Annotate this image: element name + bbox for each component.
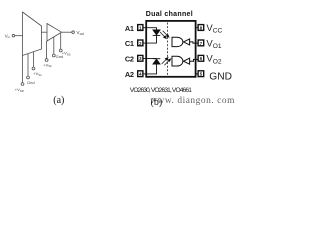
wire Vin to buffer (15, 35, 23, 37)
wire +VSS drop (60, 33, 62, 49)
svg-text:+VSS: +VSS (62, 51, 71, 57)
wire U1b to Vout (62, 31, 72, 33)
svg-text:VCC: VCC (206, 23, 222, 35)
svg-text:Vout: Vout (77, 30, 85, 36)
svg-text:7: 7 (200, 41, 203, 46)
wire +VS2 drop (46, 41, 48, 59)
svg-text:4: 4 (139, 72, 142, 77)
wire +VDD drop (22, 56, 24, 83)
svg-text:A1: A1 (125, 24, 134, 33)
light arrows channel 2 (162, 59, 167, 64)
LED D2 (channel 2) (153, 58, 161, 60)
svg-text:1: 1 (139, 25, 142, 30)
wire gate2 to pin6 (190, 59, 198, 61)
node Vout terminal (72, 31, 75, 34)
pin 6 box (198, 55, 204, 61)
svg-text:VO2: VO2 (206, 54, 221, 66)
wire pin1 to LED1 anode (146, 28, 157, 30)
pin 3 box (138, 55, 146, 61)
svg-text:6: 6 (200, 56, 203, 61)
svg-text:5: 5 (200, 72, 203, 77)
dashed isolation line (167, 23, 169, 77)
node +VSS terminal (59, 49, 62, 52)
svg-text:C1: C1 (125, 39, 134, 48)
pin 5 box (196, 71, 204, 77)
svg-text:VO1: VO1 (206, 38, 221, 50)
svg-text:C2: C2 (125, 55, 134, 64)
node Vin terminal (12, 34, 15, 37)
node +VDD terminal (21, 83, 24, 86)
node Gnd2 terminal (52, 54, 55, 57)
buffer U1b (output stage triangle) (47, 24, 62, 42)
wire +VS1 drop (33, 52, 35, 68)
svg-text:8: 8 (200, 25, 203, 30)
buffer U1a (input stage trapezoid) (23, 12, 42, 56)
pin 1 box (138, 25, 146, 31)
wire LED1 cathode to pin2 (146, 35, 157, 43)
svg-text:Dual channel: Dual channel (146, 11, 193, 18)
svg-text:VO2630, VO2631, VO4661: VO2630, VO2631, VO4661 (130, 87, 192, 94)
output diode channel 1 (184, 39, 190, 45)
wire pin3 to LED2 cathode (146, 58, 157, 60)
detector gate U2a (172, 37, 183, 46)
svg-text:www. diangon. com: www. diangon. com (150, 96, 235, 106)
light arrows channel 1 (160, 31, 171, 66)
svg-text:3: 3 (139, 56, 142, 61)
svg-text:+VDD: +VDD (15, 87, 24, 93)
wire U1a to U1b (42, 31, 48, 33)
wire LED2 anode to pin4 (146, 64, 157, 74)
svg-text:Gnd: Gnd (27, 80, 35, 85)
node +VS1 terminal (32, 67, 35, 70)
wire gate1 to pin7 (190, 42, 198, 43)
svg-text:GND: GND (209, 71, 232, 82)
wire Gnd drop (27, 54, 29, 77)
output diode channel 2 (184, 58, 190, 64)
pin 2 box (138, 40, 146, 46)
svg-text:(a): (a) (53, 95, 64, 106)
svg-text:Vin: Vin (5, 33, 11, 39)
pin 7 box (198, 40, 204, 46)
node Gnd terminal (27, 76, 30, 79)
svg-text:+VS2: +VS2 (43, 62, 52, 68)
pin 4 box (138, 71, 146, 77)
detector gate U2b (172, 56, 183, 66)
wire Gnd2 drop (53, 37, 55, 54)
svg-text:2: 2 (139, 41, 142, 46)
svg-text:+VS1: +VS1 (33, 71, 42, 77)
svg-text:A2: A2 (125, 70, 134, 79)
IC body U2 (146, 21, 195, 77)
node +VS2 terminal (45, 59, 48, 62)
pin 8 box (196, 25, 204, 31)
LED D1 (channel 1) (153, 30, 160, 35)
